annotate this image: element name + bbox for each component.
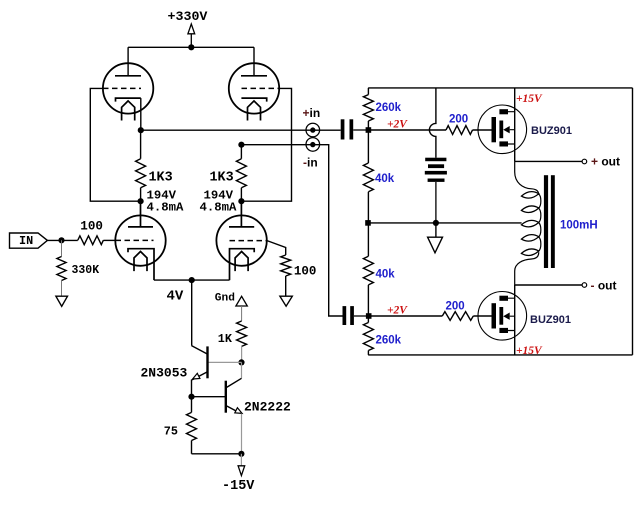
resistor 1K3 right [210,145,247,202]
capacitor coupling lower [343,306,369,325]
+330V power arrow [188,24,195,47]
+330V label [168,9,208,24]
mosfet Q4 BUZ901 lower [478,292,571,341]
wire bottom to -15V node [192,453,242,455]
svg-text:1K3: 1K3 [210,171,234,186]
svg-text:40k: 40k [375,173,395,185]
svg-text:-in: -in [303,156,318,170]
svg-text:40k: 40k [376,269,396,281]
inductor 100mH winding [515,161,598,285]
transistor Q2 2N2222 [192,378,292,414]
wire vertical with hop [429,88,435,158]
label +2V lower [387,304,408,316]
resistor 100 input [78,219,116,244]
tube V4 (lower right triode) [216,201,267,280]
svg-text:-15V: -15V [222,479,255,494]
outer box top edge [368,87,632,89]
svg-text:BUZ901: BUZ901 [530,314,571,326]
wire + out [515,160,582,162]
wire -in line [241,145,342,316]
node 1K / base junction [238,359,244,365]
node input [58,237,64,243]
connector -in [303,138,320,170]
label -15V [222,479,255,494]
label 194V right [204,189,234,203]
wire chain a [367,121,369,163]
wire 4V cathode join [154,280,230,346]
wire gray 2N2222 collector [241,362,243,378]
resistor 40k upper [363,163,394,192]
node emitter/base junction [188,394,194,400]
resistor 1K3 left [136,130,173,201]
resistor 330K [57,240,99,296]
resistor 260k upper [363,88,401,121]
svg-text:100mH: 100mH [560,220,598,232]
wire chain d [367,351,369,355]
transistor Q1 2N3053 [141,346,208,381]
-15V power arrow [238,454,245,476]
resistor 260k lower [363,323,401,351]
wire drain/source vertical upper [514,88,516,161]
wire top rail [128,47,254,76]
ground under 330K [56,296,68,306]
label 4.8mA right [200,201,238,215]
wire - out [515,284,582,286]
svg-text:+in: +in [303,106,321,120]
wire chain b [367,192,369,256]
svg-text:100: 100 [294,264,317,278]
label 4V [167,288,184,304]
resistor 200 lower [442,301,491,321]
tube V1 (upper left triode) [103,63,153,120]
resistor 1K [218,321,247,362]
wire gray base 2N3053 [208,361,242,363]
svg-text:Gnd: Gnd [215,293,235,305]
wire center tap [368,222,522,224]
resistor 75 [164,397,197,454]
outer box bottom edge [368,354,632,356]
wire chain c [367,285,369,323]
wire +in line [141,98,341,130]
svg-text:+330V: +330V [168,9,208,24]
svg-text:4.8mA: 4.8mA [147,201,185,215]
label +15V lower [516,345,543,357]
wire +2V to gate lower [369,315,443,317]
tube V3 (lower left triode) [115,201,165,280]
wire left feedback (V1 grid to V3 plate) [90,88,140,201]
wire drain/source vertical lower [514,285,516,355]
svg-text:75: 75 [164,425,178,439]
node -15V junction [238,451,244,457]
svg-text:2N2222: 2N2222 [244,400,291,415]
svg-text:260k: 260k [376,335,402,347]
node +2V upper [366,127,372,133]
resistor 100 right [267,241,316,297]
svg-text:200: 200 [446,301,465,313]
node left feedback junction [138,198,144,204]
wire right feedback (V2 grid to V4 plate) [241,88,291,201]
node +330V junction [188,44,194,50]
Gnd power arrow [236,296,247,321]
svg-text:330K: 330K [72,264,100,277]
wire +2V to gate upper [368,129,446,131]
connector IN [10,233,48,248]
tube V2 (upper right triode) [229,63,280,120]
wire gray 2N2222 emitter down [241,414,243,454]
svg-text:1K3: 1K3 [149,171,173,186]
node center tap left [365,220,371,226]
node center tap mid [433,220,439,226]
svg-text:1K: 1K [218,332,233,346]
svg-text:4V: 4V [167,288,184,304]
connector +in [303,106,321,137]
svg-text:IN: IN [19,234,33,248]
node 4V [189,277,195,283]
capacitor coupling upper [341,119,369,139]
inductor core bars [544,175,555,268]
svg-text:4.8mA: 4.8mA [200,201,238,215]
connector - out [582,279,616,293]
connector + out [582,155,620,169]
svg-text:200: 200 [449,114,468,126]
label 194V left [147,189,177,203]
mosfet Q3 BUZ901 upper [478,105,572,154]
svg-text:- out: - out [591,279,617,293]
svg-text:+15V: +15V [516,345,543,357]
node right feedback junction [238,198,244,204]
svg-text:100: 100 [80,219,103,233]
svg-text:+15V: +15V [516,93,543,105]
label +15V upper [516,93,543,105]
svg-text:2N3053: 2N3053 [141,366,188,381]
node -in tap [238,142,244,148]
svg-text:+2V: +2V [387,119,408,131]
svg-text:260k: 260k [376,102,402,114]
node +in tap [138,127,144,133]
svg-text:+2V: +2V [387,304,408,316]
resistor 40k lower [363,256,395,285]
capacitor shunt stack [425,158,447,223]
wire 2N3053 emitter down [191,380,193,397]
ground center tap [428,223,443,253]
label 4.8mA left [147,201,185,215]
wire IN to node [47,239,77,241]
label +2V upper [387,119,408,131]
outer box right edge [632,88,634,355]
resistor 200 upper [446,114,492,135]
node +2V lower [366,313,372,319]
svg-text:+ out: + out [591,155,620,169]
label Gnd [215,293,235,305]
ground under 100 [280,296,292,306]
svg-text:BUZ901: BUZ901 [531,125,572,137]
